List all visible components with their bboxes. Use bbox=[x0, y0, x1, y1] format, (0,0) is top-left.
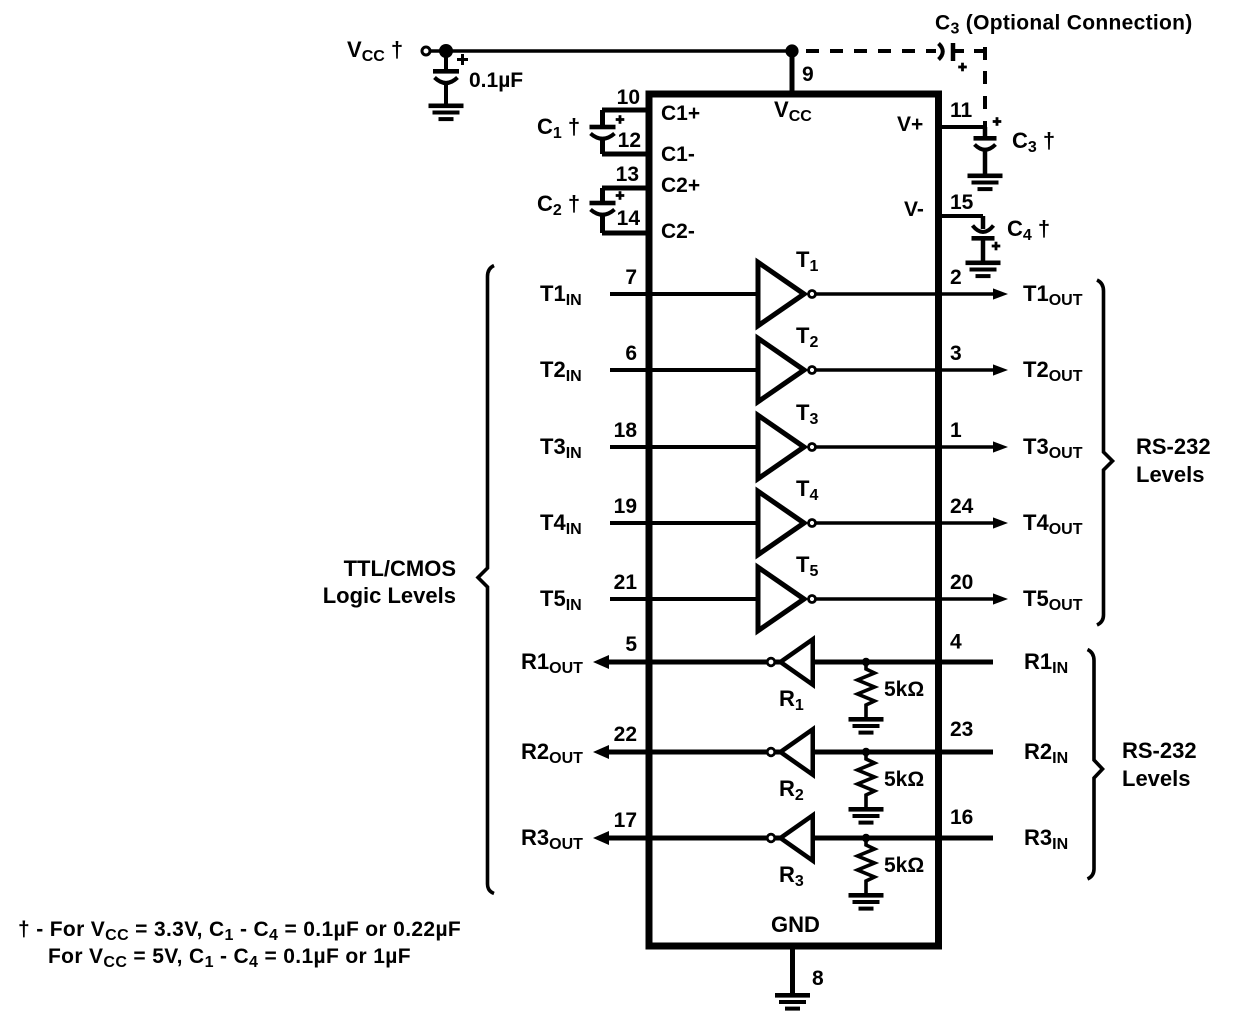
svg-text:9: 9 bbox=[802, 63, 814, 86]
svg-text:11: 11 bbox=[950, 99, 973, 122]
svg-text:GND: GND bbox=[771, 912, 820, 937]
svg-text:4: 4 bbox=[950, 631, 962, 654]
svg-text:RS-232: RS-232 bbox=[1122, 738, 1197, 763]
svg-text:7: 7 bbox=[625, 266, 637, 289]
svg-text:5: 5 bbox=[625, 633, 637, 656]
svg-text:12: 12 bbox=[618, 129, 641, 152]
svg-text:18: 18 bbox=[614, 419, 638, 442]
svg-text:C2+: C2+ bbox=[661, 174, 700, 197]
svg-text:† - For VCC = 3.3V, C1 - C4 =: † - For VCC = 3.3V, C1 - C4 = 0.1µF or 0… bbox=[18, 918, 461, 944]
svg-text:V+: V+ bbox=[897, 113, 923, 136]
svg-text:15: 15 bbox=[950, 191, 974, 214]
svg-text:Levels: Levels bbox=[1122, 766, 1191, 791]
svg-text:C3 (Optional Connection): C3 (Optional Connection) bbox=[935, 12, 1193, 38]
svg-text:20: 20 bbox=[950, 571, 973, 594]
svg-text:2: 2 bbox=[950, 266, 962, 289]
svg-text:Logic Levels: Logic Levels bbox=[323, 583, 456, 608]
svg-text:14: 14 bbox=[617, 207, 641, 230]
svg-text:V-: V- bbox=[904, 198, 924, 221]
svg-text:13: 13 bbox=[616, 163, 639, 186]
svg-text:6: 6 bbox=[625, 342, 637, 365]
svg-text:3: 3 bbox=[950, 342, 962, 365]
svg-text:17: 17 bbox=[614, 809, 637, 832]
svg-text:24: 24 bbox=[950, 495, 974, 518]
svg-text:C2-: C2- bbox=[661, 220, 695, 243]
svg-text:22: 22 bbox=[614, 723, 637, 746]
svg-text:21: 21 bbox=[614, 571, 638, 594]
svg-text:RS-232: RS-232 bbox=[1136, 434, 1211, 459]
svg-text:10: 10 bbox=[617, 86, 640, 109]
svg-text:19: 19 bbox=[614, 495, 637, 518]
svg-text:For VCC = 5V, C1 - C4 = 0.1µF: For VCC = 5V, C1 - C4 = 0.1µF or 1µF bbox=[48, 945, 411, 971]
svg-text:0.1µF: 0.1µF bbox=[469, 69, 523, 92]
svg-text:C1+: C1+ bbox=[661, 102, 700, 125]
svg-text:C1-: C1- bbox=[661, 143, 695, 166]
svg-text:23: 23 bbox=[950, 718, 973, 741]
svg-text:TTL/CMOS: TTL/CMOS bbox=[344, 556, 456, 581]
svg-text:16: 16 bbox=[950, 806, 973, 829]
svg-text:8: 8 bbox=[812, 967, 824, 990]
svg-text:Levels: Levels bbox=[1136, 462, 1205, 487]
svg-text:1: 1 bbox=[950, 419, 962, 442]
